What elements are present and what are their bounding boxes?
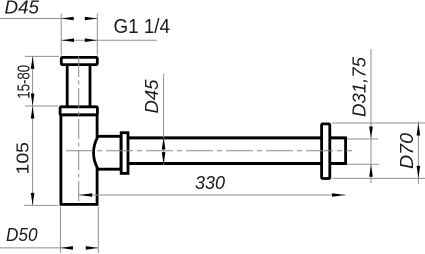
svg-text:D50: D50	[6, 225, 38, 245]
node: 330 left arrow	[79, 193, 93, 197]
node: 15-80 up arrow	[31, 56, 35, 69]
wire: D45 top dimension line	[0, 18, 74, 20]
svg-text:G1 1/4: G1 1/4	[114, 16, 171, 38]
wire: pipe end edge	[344, 137, 347, 165]
node: top flange	[61, 57, 97, 64]
node: union nut at bottle outlet	[94, 136, 122, 169]
node: D70 up arrow	[417, 123, 421, 136]
node: D45 top right arrow	[85, 17, 98, 21]
wire: D31,75 extension bottom	[347, 163, 379, 165]
wire: 15-80 extension top	[25, 55, 59, 57]
wire: D70 dim line	[417, 121, 419, 184]
wire: neck right wall	[89, 64, 92, 107]
node: D31,75 bottom arrow	[369, 164, 373, 177]
wire: horizontal center line	[66, 150, 352, 152]
svg-text:D70: D70	[397, 133, 417, 169]
node: G dim left arrow	[62, 38, 75, 42]
wire: D31,75 dim line	[370, 49, 372, 183]
node: wall flange	[322, 124, 330, 179]
wire: pipe bottom wall	[128, 162, 346, 165]
svg-text:15-80: 15-80	[14, 65, 34, 99]
wire: D31,75 extension top	[347, 138, 378, 140]
node: D50 left arrow	[60, 246, 73, 250]
wire: top extension line right	[96, 14, 98, 56]
wire: 15-80/105 extension mid	[25, 105, 58, 107]
wire: D70 extension top	[333, 122, 425, 124]
wire: left vertical dimension line	[32, 56, 34, 205]
wire: neck left wall	[66, 64, 69, 107]
wire: G1 1/4 dimension line	[62, 39, 158, 41]
wire: D50 extension left	[59, 207, 61, 253]
wire: 330 dimension line	[79, 194, 346, 196]
node: body of bottle trap	[61, 115, 97, 205]
node: collar ring	[121, 133, 128, 174]
wire: D50 extension right	[97, 207, 99, 253]
node: mid flange	[60, 107, 97, 115]
node: 15-80 down arrow	[31, 94, 35, 107]
svg-text:D45: D45	[5, 0, 41, 18]
node: D70 down arrow	[417, 166, 421, 179]
node: 105 up arrow	[31, 106, 35, 119]
svg-text:105: 105	[13, 142, 33, 175]
wire: top extension line left	[60, 14, 62, 56]
wire: D50 dimension line	[0, 247, 73, 249]
node: 330 right arrow	[332, 193, 346, 197]
node: D45 pipe up arrow	[162, 137, 166, 150]
node: D50 right arrow	[86, 246, 99, 250]
node: G dim right arrow	[85, 38, 98, 42]
node: D31,75 top arrow	[369, 127, 373, 140]
svg-text:D45: D45	[142, 78, 162, 113]
node: D45 pipe down arrow	[162, 152, 166, 165]
svg-text:330: 330	[195, 173, 225, 193]
svg-text:D31,75: D31,75	[350, 56, 370, 117]
node: 105 down arrow	[31, 193, 35, 206]
wire: 105 extension bottom	[24, 204, 58, 206]
wire: vertical center line	[78, 57, 80, 204]
wire: D70 extension bottom	[333, 177, 425, 179]
wire: D45 pipe dim line	[163, 74, 165, 165]
wire: pipe top wall	[128, 136, 346, 139]
node: D45 top left arrow	[61, 17, 73, 21]
